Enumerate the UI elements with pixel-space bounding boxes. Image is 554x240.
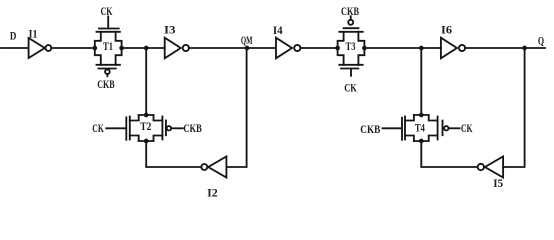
junction dot T4 bottom: [419, 139, 424, 144]
svg-text:CKB: CKB: [360, 122, 380, 136]
wire node B down to T4: [420, 48, 422, 115]
svg-text:Q: Q: [538, 33, 544, 47]
node B junction dot: [419, 46, 424, 51]
svg-text:I5: I5: [493, 176, 503, 190]
wire node A down to T2: [145, 48, 147, 115]
transmission gate T4: [383, 115, 460, 141]
svg-text:I6: I6: [441, 23, 452, 37]
svg-text:CKB: CKB: [341, 4, 359, 18]
transmission gate T3: [338, 16, 365, 76]
inverter I6: [441, 38, 457, 59]
junction dot T3 left: [335, 46, 340, 51]
node QM junction dot: [245, 46, 250, 51]
inverter I5: [485, 157, 503, 178]
wire I5 input up to node Q: [503, 48, 524, 167]
svg-text:CKB: CKB: [183, 121, 201, 135]
inverter I2: [208, 157, 226, 178]
inverter I3: [165, 38, 181, 59]
inverter I4: [276, 38, 292, 59]
svg-text:QM: QM: [241, 33, 253, 47]
wire I6 to Q output: [465, 47, 545, 49]
transmission gate T1: [95, 17, 122, 77]
svg-text:CK: CK: [101, 4, 113, 18]
junction dot T1 right: [119, 46, 124, 51]
svg-text:T3: T3: [346, 39, 356, 53]
svg-text:T2: T2: [140, 119, 151, 133]
junction dot T3 right: [362, 46, 367, 51]
wire T3 to I6: [364, 47, 441, 49]
wire T4 bottom to I5 output: [421, 141, 477, 167]
svg-text:T4: T4: [415, 120, 425, 134]
svg-text:CK: CK: [344, 80, 357, 94]
junction dot T4 top: [419, 113, 424, 118]
wire I4 to T3: [300, 47, 337, 49]
wire I3 to I4 (node QM): [189, 47, 276, 49]
svg-text:CKB: CKB: [97, 77, 115, 91]
wire T1 to I3: [122, 47, 165, 49]
wire I1 to T1: [51, 47, 94, 49]
svg-text:I2: I2: [207, 185, 218, 199]
junction dot T1 left: [92, 46, 97, 51]
node Q junction dot: [522, 46, 527, 51]
svg-text:D: D: [10, 29, 17, 43]
inverter I1: [29, 38, 45, 58]
junction dot T2 top: [144, 113, 149, 118]
transmission gate T2: [106, 115, 183, 141]
svg-text:I3: I3: [164, 23, 176, 37]
wire T2 bottom to I2 output: [146, 141, 201, 167]
wire D input: [1, 47, 29, 49]
node A junction dot: [144, 46, 149, 51]
svg-text:I4: I4: [273, 23, 283, 37]
junction dot T2 bottom: [144, 139, 149, 144]
svg-text:T1: T1: [103, 39, 113, 53]
svg-text:I1: I1: [29, 27, 38, 41]
svg-text:CK: CK: [92, 121, 104, 135]
wire I2 input up to node QM: [226, 48, 246, 167]
svg-text:CK: CK: [461, 121, 473, 135]
